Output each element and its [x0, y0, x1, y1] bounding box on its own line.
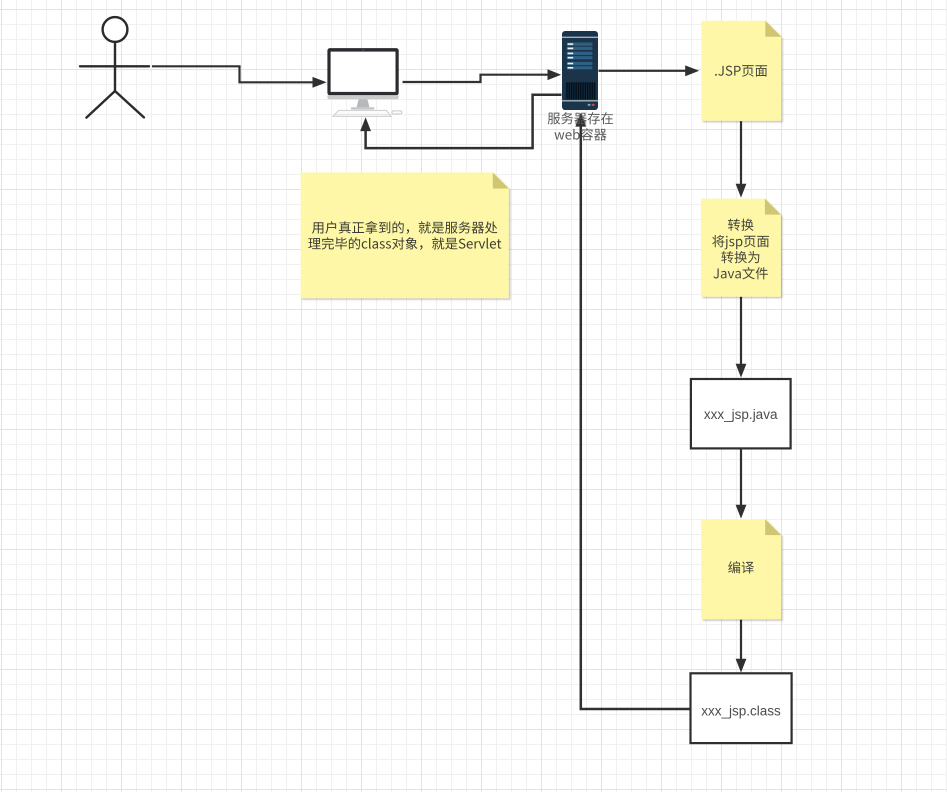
svg-text:xxx_jsp.class: xxx_jsp.class: [701, 704, 781, 719]
svg-text:xxx_jsp.java: xxx_jsp.java: [704, 407, 778, 422]
